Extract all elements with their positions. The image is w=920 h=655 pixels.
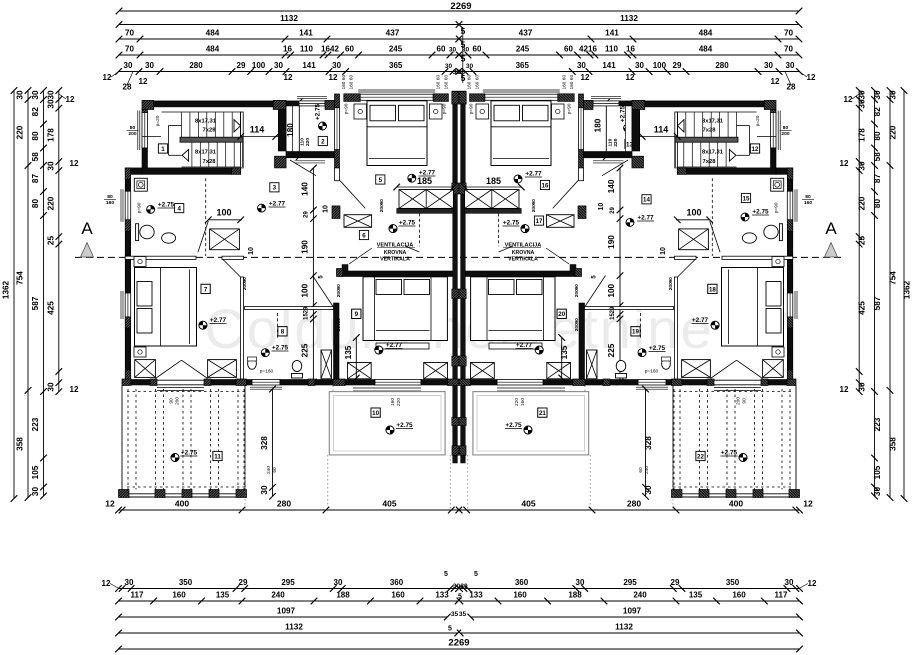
svg-text:90: 90 xyxy=(169,398,175,404)
svg-text:p=90: p=90 xyxy=(442,103,448,114)
room8 toilet xyxy=(292,360,302,371)
room9 nw pier xyxy=(337,269,344,277)
elevation marker +2.75 xyxy=(741,213,749,221)
svg-text:KROVNA: KROVNA xyxy=(384,250,407,256)
svg-text:6: 6 xyxy=(362,232,366,239)
svg-text:188: 188 xyxy=(336,591,350,600)
section marker A triangle xyxy=(81,243,94,257)
svg-text:240: 240 xyxy=(271,591,285,600)
svg-text:5: 5 xyxy=(379,177,383,184)
svg-text:365: 365 xyxy=(516,61,530,70)
svg-text:90: 90 xyxy=(242,277,248,283)
svg-text:484: 484 xyxy=(206,29,220,38)
svg-text:437: 437 xyxy=(386,29,400,38)
svg-text:30: 30 xyxy=(466,63,474,70)
svg-text:5: 5 xyxy=(458,594,462,601)
svg-text:+2.75: +2.75 xyxy=(721,450,738,457)
elevation marker +2.75 xyxy=(261,349,269,357)
svg-text:80: 80 xyxy=(107,194,113,200)
terrace outline xyxy=(121,386,123,498)
dimension chain xyxy=(119,588,459,590)
svg-text:+2.77: +2.77 xyxy=(637,215,654,222)
svg-text:220: 220 xyxy=(514,398,520,406)
svg-text:+2.75: +2.75 xyxy=(399,220,416,227)
elevation marker +2.75 xyxy=(524,426,532,434)
svg-text:20: 20 xyxy=(558,311,565,318)
dotted guides terrace xyxy=(327,455,329,510)
svg-text:2269: 2269 xyxy=(448,638,469,649)
svg-text:160: 160 xyxy=(341,81,346,89)
svg-text:29: 29 xyxy=(671,578,680,587)
svg-text:5: 5 xyxy=(444,571,448,578)
room label box 10 xyxy=(371,408,380,417)
svg-text:5: 5 xyxy=(461,73,466,83)
elevation marker +2.75 xyxy=(319,122,327,130)
svg-text:140: 140 xyxy=(301,182,310,196)
svg-text:280: 280 xyxy=(627,499,641,509)
svg-text:29: 29 xyxy=(610,207,616,214)
svg-text:117: 117 xyxy=(131,591,144,600)
bottom wall pier center xyxy=(448,379,459,386)
svg-text:60: 60 xyxy=(272,467,278,473)
svg-text:587: 587 xyxy=(31,296,40,310)
svg-text:240: 240 xyxy=(633,591,647,600)
svg-text:8x17,31: 8x17,31 xyxy=(702,119,724,125)
elevation marker +2.77 xyxy=(514,175,522,183)
stair handrail bar xyxy=(180,137,242,142)
room7 terrace door swing xyxy=(155,360,181,378)
bedroom5 door leaf xyxy=(340,181,365,209)
wc niche xyxy=(286,106,293,158)
ventilation shaft xyxy=(342,265,348,272)
room label box 11 xyxy=(213,451,222,460)
svg-text:117: 117 xyxy=(775,591,788,600)
dim 100 hall xyxy=(208,219,242,221)
left dim chain xyxy=(27,91,29,498)
svg-text:328: 328 xyxy=(260,436,269,450)
bedroom top wall pier L xyxy=(344,94,360,102)
svg-text:1132: 1132 xyxy=(285,623,303,632)
svg-text:280: 280 xyxy=(715,61,729,70)
dimension chain xyxy=(119,600,459,602)
svg-text:15: 15 xyxy=(304,313,310,320)
svg-text:200: 200 xyxy=(736,397,742,405)
bottom wall seg xyxy=(421,380,448,386)
bath window 80/160 xyxy=(125,191,131,220)
svg-text:5: 5 xyxy=(448,626,452,633)
terrace door sill xyxy=(157,379,204,381)
svg-text:29: 29 xyxy=(304,306,310,313)
svg-text:8x17,31: 8x17,31 xyxy=(195,150,217,156)
dimension chain xyxy=(119,38,459,40)
corridor south wall xyxy=(397,208,454,213)
svg-text:+2.75: +2.75 xyxy=(315,103,322,120)
bottom wall seg xyxy=(315,380,333,386)
stair right stringer wall xyxy=(240,112,243,168)
room8 north wall xyxy=(245,307,334,310)
pergola dashed beams xyxy=(127,389,129,490)
svg-text:135: 135 xyxy=(689,591,703,600)
svg-text:350: 350 xyxy=(179,578,193,587)
svg-text:+2.75: +2.75 xyxy=(503,220,520,227)
bed bench xyxy=(376,343,429,349)
bottom wall pier 1 xyxy=(122,379,131,386)
svg-text:35: 35 xyxy=(451,611,459,618)
room7 wardrobe R xyxy=(208,360,237,378)
svg-text:22: 22 xyxy=(697,453,704,460)
svg-text:12: 12 xyxy=(807,73,816,82)
svg-text:160: 160 xyxy=(732,591,746,600)
svg-text:100: 100 xyxy=(252,61,266,70)
svg-text:12: 12 xyxy=(626,73,635,82)
svg-text:p=20: p=20 xyxy=(155,115,161,126)
bottom wall pier 6 xyxy=(333,379,345,386)
svg-text:87: 87 xyxy=(31,174,40,184)
svg-text:405: 405 xyxy=(521,499,535,509)
room8 dashed line xyxy=(277,313,279,338)
svg-text:60: 60 xyxy=(444,75,449,81)
upper stair flight treads xyxy=(181,112,183,137)
bottom wall seg xyxy=(211,380,236,386)
room9 wardrobe L xyxy=(348,363,372,379)
room label box 3 xyxy=(270,183,279,192)
svg-text:484: 484 xyxy=(206,45,220,54)
dim 185 xyxy=(397,186,454,188)
svg-text:8x17,31: 8x17,31 xyxy=(195,119,217,125)
svg-text:30: 30 xyxy=(858,161,867,171)
svg-text:200: 200 xyxy=(128,131,136,137)
svg-text:160: 160 xyxy=(475,81,480,89)
svg-text:42: 42 xyxy=(330,45,339,54)
svg-text:220: 220 xyxy=(47,196,56,210)
bottom wall pier 4 xyxy=(236,379,247,386)
svg-text:220: 220 xyxy=(396,398,402,406)
svg-text:225: 225 xyxy=(301,343,310,357)
svg-text:30: 30 xyxy=(576,578,585,587)
svg-text:30: 30 xyxy=(453,583,461,590)
room label box 9 xyxy=(352,309,361,318)
svg-text:135: 135 xyxy=(344,345,353,359)
svg-text:30: 30 xyxy=(274,61,283,70)
svg-text:60: 60 xyxy=(562,75,567,81)
svg-text:133: 133 xyxy=(435,591,449,600)
svg-text:30: 30 xyxy=(31,90,40,100)
svg-text:200: 200 xyxy=(531,204,537,212)
svg-text:754: 754 xyxy=(16,271,25,285)
svg-text:16: 16 xyxy=(283,45,292,54)
svg-text:2269: 2269 xyxy=(450,1,471,12)
svg-text:8x17,31: 8x17,31 xyxy=(702,150,724,156)
svg-text:295: 295 xyxy=(623,578,637,587)
svg-text:220: 220 xyxy=(16,125,25,139)
svg-text:60: 60 xyxy=(564,45,573,54)
svg-text:12: 12 xyxy=(70,159,79,168)
svg-text:90: 90 xyxy=(379,199,385,205)
svg-text:19: 19 xyxy=(632,329,639,336)
bottom wall seg xyxy=(345,380,375,386)
svg-text:7x28: 7x28 xyxy=(203,159,217,165)
svg-text:30: 30 xyxy=(47,161,56,171)
svg-text:30: 30 xyxy=(47,90,56,100)
svg-text:29: 29 xyxy=(673,61,682,70)
svg-text:82: 82 xyxy=(873,107,882,117)
svg-text:VERTIKALA: VERTIKALA xyxy=(380,257,410,263)
svg-text:18: 18 xyxy=(709,286,716,293)
svg-text:14: 14 xyxy=(643,197,650,204)
svg-text:+2.77: +2.77 xyxy=(210,317,227,324)
svg-text:30: 30 xyxy=(858,99,867,109)
svg-text:60: 60 xyxy=(638,467,644,473)
svg-text:p=90: p=90 xyxy=(344,103,350,114)
svg-text:30: 30 xyxy=(449,47,457,54)
svg-text:358: 358 xyxy=(16,437,25,451)
bedroom wall pier top xyxy=(335,94,340,108)
room label box 4 xyxy=(175,204,184,213)
terrace dashed cross lines xyxy=(127,391,245,393)
bed bedroom5 xyxy=(367,101,427,166)
svg-text:188: 188 xyxy=(568,591,582,600)
svg-text:10: 10 xyxy=(323,205,330,213)
svg-text:484: 484 xyxy=(699,29,713,38)
hall dashed line xyxy=(205,178,207,256)
svg-text:10: 10 xyxy=(598,203,605,211)
svg-text:245: 245 xyxy=(516,45,530,54)
svg-text:30: 30 xyxy=(889,90,898,100)
svg-text:12: 12 xyxy=(66,95,75,104)
bottom wall pier 2 xyxy=(150,379,157,386)
elevation marker +2.77 xyxy=(375,346,383,354)
svg-text:p=90: p=90 xyxy=(137,202,143,213)
svg-text:30: 30 xyxy=(445,63,453,70)
shower xyxy=(134,178,147,191)
svg-text:p=90: p=90 xyxy=(774,202,780,213)
svg-text:110: 110 xyxy=(300,138,306,146)
svg-text:5: 5 xyxy=(461,26,466,36)
party wall pier blocks xyxy=(452,183,459,194)
svg-text:12: 12 xyxy=(844,95,853,104)
hall closet xyxy=(210,229,240,250)
svg-text:405: 405 xyxy=(382,499,396,509)
svg-text:7x28: 7x28 xyxy=(703,128,717,134)
section marker A triangle xyxy=(825,243,838,257)
svg-text:1097: 1097 xyxy=(623,607,642,616)
svg-text:29: 29 xyxy=(610,306,616,313)
room label box 5 xyxy=(376,175,385,184)
svg-text:7x28: 7x28 xyxy=(203,128,217,134)
svg-text:16: 16 xyxy=(542,182,549,189)
svg-text:58: 58 xyxy=(873,152,882,162)
svg-text:30: 30 xyxy=(786,61,795,70)
svg-text:3: 3 xyxy=(273,185,277,192)
svg-text:29: 29 xyxy=(237,61,246,70)
svg-text:160: 160 xyxy=(391,591,405,600)
left dim chain 2 xyxy=(43,91,45,497)
corridor pier xyxy=(332,206,340,219)
svg-text:80: 80 xyxy=(873,131,882,141)
wc top wall xyxy=(286,101,299,106)
svg-text:245: 245 xyxy=(389,45,403,54)
svg-text:29: 29 xyxy=(304,211,310,218)
svg-text:135: 135 xyxy=(560,345,569,359)
room label box 17 xyxy=(534,216,543,225)
svg-text:110: 110 xyxy=(608,138,614,146)
sliding glass door xyxy=(375,380,421,386)
top dim 2269 xyxy=(119,10,799,12)
svg-text:190: 190 xyxy=(301,240,310,254)
svg-text:60: 60 xyxy=(349,75,354,81)
dimension chain xyxy=(119,71,459,73)
bedroom window xyxy=(125,293,131,317)
svg-text:+2.75: +2.75 xyxy=(620,105,627,122)
elevation marker +2.75 xyxy=(171,454,179,462)
svg-text:10: 10 xyxy=(372,410,379,417)
terrace dim 328 xyxy=(272,389,274,496)
dimension chain xyxy=(119,509,459,511)
svg-text:12: 12 xyxy=(803,499,813,509)
svg-text:30: 30 xyxy=(47,382,56,392)
bath window p=160 xyxy=(252,380,280,386)
left dim 1362 xyxy=(13,91,15,499)
dim chain hall right xyxy=(619,168,621,382)
svg-text:240: 240 xyxy=(644,466,650,474)
svg-text:425: 425 xyxy=(858,301,867,315)
dim 180 wc right xyxy=(605,102,607,156)
left wall pier b xyxy=(125,220,131,232)
svg-text:12: 12 xyxy=(752,146,759,153)
svg-text:12: 12 xyxy=(102,579,111,588)
svg-text:90: 90 xyxy=(742,398,748,404)
svg-text:295: 295 xyxy=(281,578,295,587)
svg-text:160: 160 xyxy=(349,81,354,89)
terrace column base xyxy=(119,490,130,498)
bedroom top wall pier R xyxy=(433,94,448,102)
svg-text:484: 484 xyxy=(699,45,713,54)
svg-text:135: 135 xyxy=(216,591,230,600)
svg-text:12: 12 xyxy=(139,77,148,86)
bed room9 xyxy=(363,277,447,341)
svg-text:42: 42 xyxy=(579,45,588,54)
svg-text:160: 160 xyxy=(562,81,567,89)
svg-text:+2.75: +2.75 xyxy=(181,450,198,457)
svg-text:12: 12 xyxy=(581,73,590,82)
wc south wall xyxy=(286,152,338,158)
svg-text:30: 30 xyxy=(873,487,882,497)
svg-text:400: 400 xyxy=(175,499,189,509)
svg-text:200: 200 xyxy=(574,289,580,297)
elevation marker +2.77 xyxy=(408,174,416,182)
bedroom wall pier mid xyxy=(335,150,340,168)
svg-text:+2.77: +2.77 xyxy=(269,201,286,208)
room8 tall cabinet xyxy=(321,350,332,379)
svg-text:7: 7 xyxy=(204,286,208,293)
left outer wall seg xyxy=(125,180,131,192)
elevation marker +2.77 xyxy=(258,204,266,212)
svg-text:200: 200 xyxy=(336,289,342,297)
elevation marker +2.75 xyxy=(624,124,632,132)
svg-text:160: 160 xyxy=(390,398,396,406)
stair landing boundary xyxy=(168,126,170,156)
svg-text:30: 30 xyxy=(332,61,341,70)
svg-text:60: 60 xyxy=(467,75,472,81)
wc door leaf xyxy=(290,160,316,176)
svg-text:200: 200 xyxy=(379,204,385,212)
wc top-right pier xyxy=(325,100,335,109)
svg-text:9: 9 xyxy=(355,311,359,318)
svg-text:365: 365 xyxy=(389,61,403,70)
svg-text:200: 200 xyxy=(175,397,181,405)
stair direction arrow down xyxy=(182,150,189,162)
svg-text:11: 11 xyxy=(214,453,221,460)
svg-text:100: 100 xyxy=(653,61,667,70)
svg-text:30: 30 xyxy=(460,583,468,590)
room8 washbasin xyxy=(248,358,257,370)
svg-text:141: 141 xyxy=(302,61,316,70)
lower stair flight treads xyxy=(191,142,193,167)
svg-text:160: 160 xyxy=(520,398,526,406)
hall wardrobe xyxy=(344,215,372,228)
svg-text:10: 10 xyxy=(248,247,255,255)
elevation marker +2.75 xyxy=(521,225,529,233)
svg-text:p=160: p=160 xyxy=(645,369,659,375)
stair-wc wall pier bottom xyxy=(275,156,287,168)
svg-text:30: 30 xyxy=(47,99,56,109)
bottom dim 1097 xyxy=(119,616,448,618)
stair block top-right pier xyxy=(273,100,286,109)
svg-text:A: A xyxy=(81,219,93,238)
svg-text:200: 200 xyxy=(668,282,674,290)
svg-text:90: 90 xyxy=(574,284,580,290)
room7 north wall xyxy=(125,256,196,259)
room7 east wall xyxy=(241,277,244,379)
svg-text:114: 114 xyxy=(250,125,265,135)
elevation marker +2.75 xyxy=(386,426,394,434)
svg-text:87: 87 xyxy=(873,174,882,184)
room label box 14 xyxy=(642,195,651,204)
dim 135 xyxy=(355,338,357,379)
svg-text:30: 30 xyxy=(125,578,134,587)
elevation marker +2.75 xyxy=(389,225,397,233)
bottom wall seg xyxy=(280,380,308,386)
svg-text:114: 114 xyxy=(654,125,669,135)
terrace column base xyxy=(209,490,219,498)
svg-text:220: 220 xyxy=(889,125,898,139)
svg-text:1132: 1132 xyxy=(615,623,633,632)
svg-text:185: 185 xyxy=(486,176,501,186)
svg-text:12: 12 xyxy=(103,73,112,82)
svg-text:60: 60 xyxy=(569,75,574,81)
center dim leader xyxy=(462,27,464,83)
svg-text:90: 90 xyxy=(531,199,537,205)
svg-text:30: 30 xyxy=(124,61,133,70)
svg-text:30: 30 xyxy=(635,61,644,70)
svg-text:1362: 1362 xyxy=(2,280,11,299)
svg-text:p=90: p=90 xyxy=(469,103,475,114)
svg-text:110: 110 xyxy=(300,45,313,54)
svg-text:8: 8 xyxy=(281,329,285,336)
svg-text:16: 16 xyxy=(626,45,635,54)
svg-text:360: 360 xyxy=(390,578,404,587)
svg-text:p=90: p=90 xyxy=(567,103,573,114)
svg-text:190: 190 xyxy=(607,235,616,249)
svg-text:180: 180 xyxy=(594,118,603,132)
room label box 7 xyxy=(201,284,210,293)
terrace center pier xyxy=(452,446,459,455)
svg-text:1: 1 xyxy=(161,146,165,153)
section line A-A xyxy=(75,256,845,258)
svg-text:223: 223 xyxy=(31,417,40,431)
room7 door leaf xyxy=(222,259,241,278)
svg-text:1132: 1132 xyxy=(620,14,638,23)
